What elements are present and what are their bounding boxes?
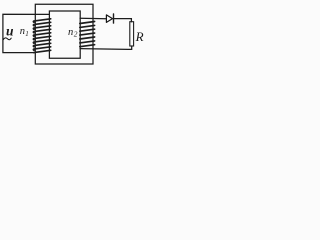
svg-text:R: R <box>135 29 144 44</box>
svg-text:1: 1 <box>25 30 29 38</box>
svg-text:n: n <box>20 26 25 37</box>
svg-text:2: 2 <box>74 30 78 39</box>
svg-text:n: n <box>68 27 73 38</box>
svg-text:u: u <box>6 24 14 39</box>
